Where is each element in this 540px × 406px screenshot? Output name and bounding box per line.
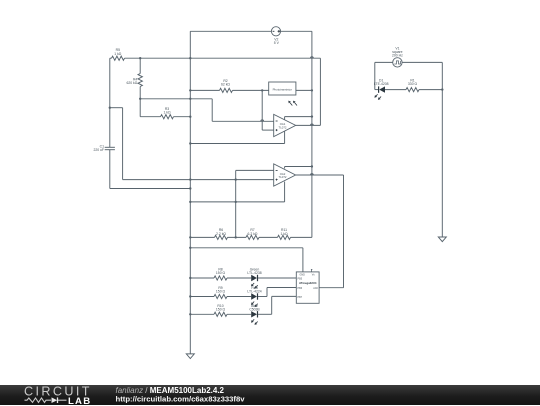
resistor R7	[246, 235, 259, 239]
svg-text:C503B: C503B	[249, 308, 260, 312]
junction dots	[189, 57, 191, 59]
wire R6-R7	[228, 236, 247, 238]
light arrow 2	[295, 103, 298, 106]
wire R4 node to OA1 minus	[140, 98, 212, 100]
LED3 emission arrow 2	[256, 322, 258, 324]
svg-text:LTL-4238: LTL-4238	[247, 271, 261, 275]
wire divider drop	[122, 108, 124, 180]
LED1 emission arrow 2	[256, 285, 258, 287]
resistor R11	[278, 235, 291, 239]
svg-text:http://circuitlab.com/c6ax83z3: http://circuitlab.com/c6ax83z333f8v	[116, 394, 246, 403]
svg-text:6.2 kΩ: 6.2 kΩ	[248, 232, 258, 236]
wire OA2 V+	[284, 167, 286, 169]
LED D2 green	[251, 275, 257, 281]
wire left rail lower	[109, 150, 111, 189]
wire top rail from node A to V2	[190, 30, 271, 32]
resistor R8	[190, 277, 214, 279]
wire R2 to phototransistor	[233, 89, 269, 91]
resistor R10	[190, 313, 214, 315]
svg-text:1 kΩ: 1 kΩ	[280, 232, 288, 236]
svg-text:LTL-4224: LTL-4224	[247, 290, 261, 294]
resistor R9	[190, 296, 214, 298]
wire R10-LED3	[227, 313, 251, 315]
wire OA1 V+	[284, 117, 286, 120]
wire OA1 V-	[284, 131, 286, 143]
wire LED2 to PB6	[258, 296, 267, 298]
wire top rail V2 to supply corner	[281, 30, 312, 32]
wire V1 right drop	[441, 62, 443, 237]
resistor R3	[140, 116, 160, 118]
wire supply vertical	[311, 31, 313, 237]
wire divider vertical	[235, 170, 237, 237]
light arrow 1	[290, 103, 293, 106]
ground symbol left	[186, 354, 194, 359]
svg-text:PB5: PB5	[298, 277, 303, 280]
svg-text:Phototransistor: Phototransistor	[273, 88, 292, 92]
wire C1 bottom to ground rail	[110, 188, 191, 190]
wire OA1 output	[296, 124, 321, 126]
phototransistor Q1	[269, 82, 296, 95]
resistor R5	[110, 57, 112, 59]
wire hops	[311, 57, 314, 58]
wire D1 to R1	[385, 89, 406, 91]
logo schematic doodle	[25, 398, 52, 402]
svg-text:1 kΩ: 1 kΩ	[114, 52, 122, 56]
D1 emission arrow 1	[376, 94, 378, 96]
resistor R2	[190, 89, 219, 91]
LED3 emission arrow 1	[253, 319, 255, 321]
wire R11 to supply	[291, 236, 312, 238]
svg-text:150 Ω: 150 Ω	[216, 271, 226, 275]
resistor R6	[190, 236, 214, 238]
svg-text:LAB: LAB	[68, 395, 91, 405]
svg-text:1 kΩ: 1 kΩ	[163, 111, 171, 115]
resistor R1	[406, 88, 419, 92]
LED2 emission arrow 1	[253, 302, 255, 304]
svg-text:PB6: PB6	[298, 287, 303, 290]
svg-text:5 V: 5 V	[274, 41, 280, 45]
svg-text:LTE-4208: LTE-4208	[374, 82, 389, 86]
svg-text:220 uF: 220 uF	[93, 148, 104, 152]
svg-text:62 kΩ: 62 kΩ	[221, 83, 230, 87]
svg-text:150 Ω: 150 Ω	[216, 290, 226, 294]
MCU U1 ATmega32U4	[296, 272, 319, 303]
wire main ground vertical	[189, 31, 191, 354]
wire LED3 to PB7	[258, 313, 272, 315]
wire LED1 to PB5	[258, 277, 296, 279]
wire R5 row to feedback corner	[125, 57, 321, 59]
wire V1 left drop	[374, 62, 376, 89]
wire phototransistor to supply	[296, 89, 312, 91]
wire R1 to right rail	[419, 89, 442, 91]
LED1 emission arrow 1	[253, 283, 255, 285]
wire R7-R11	[259, 236, 278, 238]
wire ground to MCU GND	[190, 247, 303, 249]
wire OA2 minus input	[236, 169, 274, 171]
wire jog at node B	[110, 107, 123, 109]
svg-text:150 Ω: 150 Ω	[216, 308, 226, 312]
svg-text:620 kΩ: 620 kΩ	[126, 81, 137, 85]
svg-text:TL072: TL072	[279, 125, 287, 129]
LED D4 blue	[251, 311, 257, 317]
voltage source V1 square 200Hz	[375, 61, 393, 63]
svg-text:ATmega32U4: ATmega32U4	[299, 281, 317, 285]
wire R8-LED1	[227, 277, 251, 279]
wire R9-LED2	[227, 296, 251, 298]
ground symbol right	[438, 237, 446, 242]
wire feedback drop to OA1 output	[319, 58, 321, 125]
D1 emission arrow 2	[380, 97, 382, 99]
LED D3 red	[251, 293, 257, 299]
MCU Vs stub	[311, 269, 313, 272]
svg-text:2.2 kΩ: 2.2 kΩ	[216, 232, 226, 236]
op-amp OA1	[274, 114, 296, 136]
capacitor C1	[105, 146, 115, 148]
op-amp OA2	[274, 164, 296, 186]
svg-text:PB7: PB7	[298, 296, 303, 299]
wire left rail upper	[109, 58, 111, 147]
voltage source V2 5V	[271, 27, 280, 36]
svg-text:GND: GND	[300, 274, 306, 277]
svg-text:330 Ω: 330 Ω	[408, 82, 418, 86]
wire OA2 V-	[284, 182, 286, 202]
LED D1 infrared	[375, 89, 379, 91]
wire to OA2 plus input	[123, 179, 274, 181]
wire emitter drop to OA1 plus	[261, 90, 263, 130]
resistor R4	[139, 58, 141, 73]
svg-text:TL072: TL072	[279, 175, 287, 179]
LED2 emission arrow 2	[256, 304, 258, 306]
svg-text:AC0: AC0	[313, 287, 318, 290]
wire OA2 output	[296, 174, 344, 176]
svg-text:200 Hz: 200 Hz	[392, 53, 403, 57]
